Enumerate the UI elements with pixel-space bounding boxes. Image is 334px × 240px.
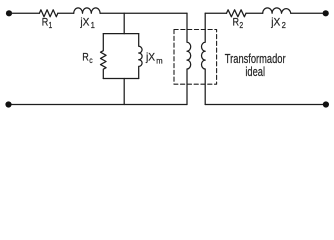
label Rc xyxy=(82,51,93,65)
svg-text:jX: jX xyxy=(270,16,280,29)
wire top-left: terminal to R1 xyxy=(9,12,39,14)
wire: bottom rail right xyxy=(205,104,326,106)
svg-text:jX: jX xyxy=(145,51,155,64)
svg-text:2: 2 xyxy=(239,20,243,30)
resistor Rc (vertical branch) xyxy=(101,34,107,79)
svg-text:1: 1 xyxy=(91,21,96,30)
wire: R2 to jX2 xyxy=(246,12,263,14)
resistor R1 xyxy=(39,10,57,17)
transformer secondary winding xyxy=(201,13,205,104)
wire: shunt bottom bar xyxy=(103,78,138,80)
wire: bottom rail left xyxy=(9,104,188,106)
wire: jX1 to primary winding (passes node at x=124.2) xyxy=(100,12,187,14)
terminal dot bottom-right xyxy=(323,101,329,107)
transformer ideal dashed boundary xyxy=(174,30,217,85)
inductor jX1 xyxy=(74,8,100,13)
inductor jXm (vertical branch) xyxy=(139,34,142,79)
wire: shunt stem lower (bottom bar to bottom rail) xyxy=(123,79,125,105)
label Transformador ideal xyxy=(225,53,286,79)
label jX2 xyxy=(270,16,286,30)
terminal dot top-left xyxy=(6,10,12,16)
terminal dot top-right xyxy=(323,10,329,16)
wire: shunt stem upper (node to top bar) xyxy=(123,13,125,33)
label R1 xyxy=(42,17,53,30)
label jX1 xyxy=(79,16,95,30)
svg-text:R: R xyxy=(233,17,240,29)
svg-text:ideal: ideal xyxy=(245,66,265,80)
wire: shunt top bar xyxy=(103,33,138,35)
inductor jX2 xyxy=(263,8,291,13)
wire: jX2 to terminal top-right xyxy=(291,12,326,14)
svg-text:c: c xyxy=(89,55,93,65)
terminal dot bottom-left xyxy=(5,101,11,107)
transformer primary winding xyxy=(187,13,191,104)
resistor R2 xyxy=(227,10,247,17)
svg-text:Transformador: Transformador xyxy=(225,53,286,67)
svg-text:R: R xyxy=(82,51,89,63)
svg-text:jX: jX xyxy=(79,16,89,29)
wire: R1 to jX1 xyxy=(58,12,74,14)
svg-text:1: 1 xyxy=(49,20,53,30)
label jXm xyxy=(145,51,163,66)
svg-text:R: R xyxy=(42,17,49,29)
svg-text:m: m xyxy=(156,56,163,65)
label R2 xyxy=(233,17,244,30)
svg-text:2: 2 xyxy=(282,21,287,30)
wire: secondary top rail to R2 xyxy=(205,12,226,14)
